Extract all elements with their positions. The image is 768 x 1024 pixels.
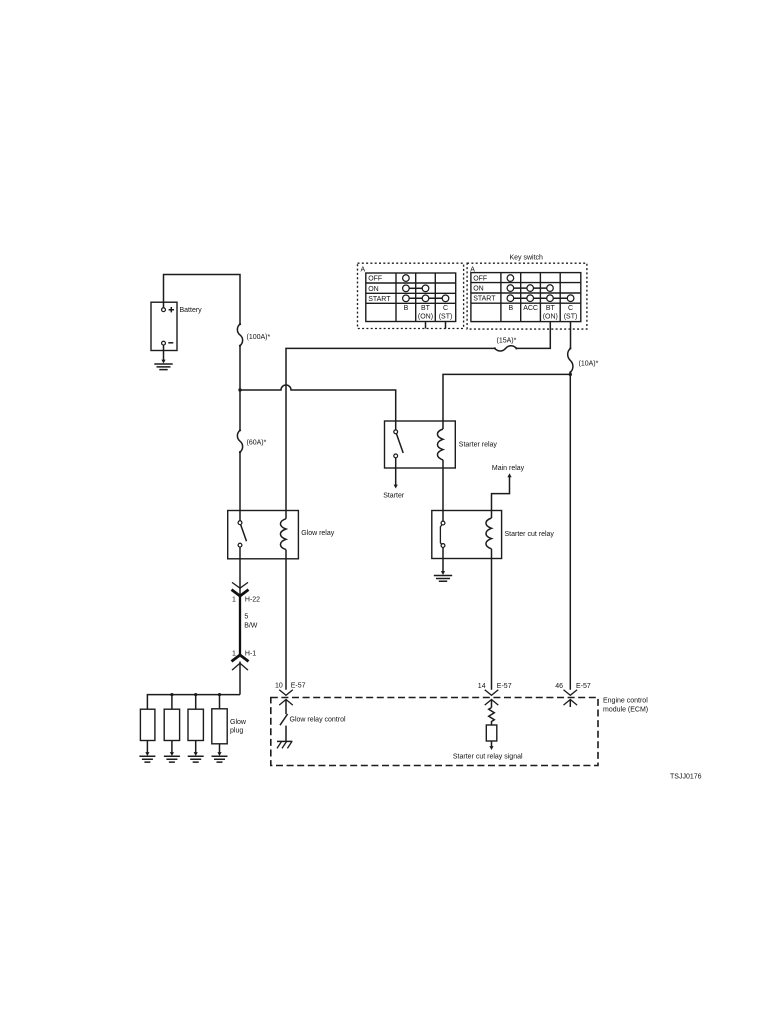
svg-text:(100A)*: (100A)* [247,334,271,341]
svg-text:Glow relay control: Glow relay control [290,717,346,724]
svg-text:E-57: E-57 [291,683,306,690]
svg-text:Starter cut relay: Starter cut relay [505,531,555,538]
svg-text:Main relay: Main relay [492,465,525,472]
svg-text:5: 5 [244,614,248,621]
svg-text:Key switch: Key switch [510,255,544,262]
svg-text:(ON): (ON) [543,313,558,320]
svg-text:Starter cut relay signal: Starter cut relay signal [453,754,523,761]
svg-text:(15A)*: (15A)* [497,338,517,345]
svg-text:Engine control: Engine control [603,698,648,705]
svg-text:A: A [361,267,366,274]
svg-text:ON: ON [368,286,379,293]
svg-text:46: 46 [555,683,563,690]
svg-text:1: 1 [232,651,236,658]
svg-text:BT: BT [546,305,556,312]
svg-text:B/W: B/W [244,623,258,630]
svg-text:H-22: H-22 [245,597,260,604]
svg-text:ACC: ACC [523,305,538,312]
svg-text:(10A)*: (10A)* [579,361,599,368]
svg-text:ON: ON [473,286,484,293]
svg-text:module (ECM): module (ECM) [603,707,648,714]
svg-text:1: 1 [232,597,236,604]
svg-text:OFF: OFF [473,275,487,282]
svg-text:(ON): (ON) [418,313,433,320]
svg-text:plug: plug [230,728,243,735]
svg-text:Starter relay: Starter relay [459,441,498,448]
svg-text:E-57: E-57 [576,683,591,690]
svg-text:14: 14 [478,683,486,690]
svg-text:OFF: OFF [368,276,382,283]
svg-text:START: START [368,296,391,303]
svg-text:(ST): (ST) [564,313,578,320]
svg-text:Starter: Starter [383,493,405,500]
svg-text:TSJJ0176: TSJJ0176 [670,773,702,780]
svg-text:(60A)*: (60A)* [247,440,267,447]
svg-text:(ST): (ST) [439,313,453,320]
svg-text:BT: BT [421,305,431,312]
svg-text:C: C [568,305,573,312]
svg-text:START: START [473,296,496,303]
svg-text:B: B [508,305,513,312]
svg-text:Battery: Battery [180,307,203,314]
svg-text:E-57: E-57 [497,683,512,690]
svg-text:C: C [443,305,448,312]
svg-text:10: 10 [275,683,283,690]
svg-text:Glow: Glow [230,719,247,726]
svg-text:H-1: H-1 [245,651,256,658]
svg-text:B: B [404,305,409,312]
svg-text:Glow relay: Glow relay [301,530,335,537]
